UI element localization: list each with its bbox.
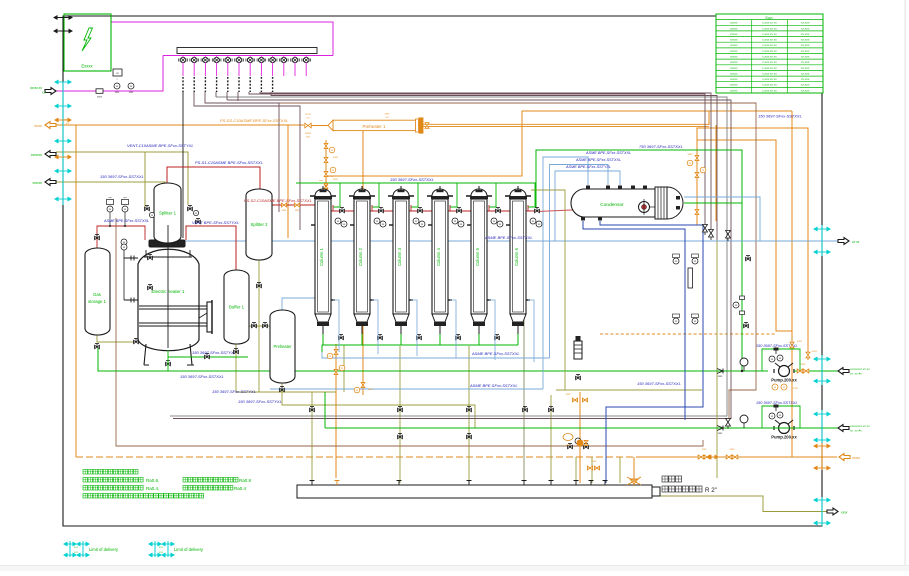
svg-text:150 3697-SFxx-SSTXXL: 150 3697-SFxx-SSTXXL [756,401,798,405]
svg-text:150 3697-SFxx-SSTXXL: 150 3697-SFxx-SSTXXL [637,381,681,386]
svg-text:xxxxx: xxxxx [730,21,738,25]
sample cooler [688,268,693,288]
orange vertical left + bottom return [75,125,77,457]
svg-text:xxxx: xxxx [811,350,818,353]
svg-text:VENT-C10ASME BPE-SFxx-SSTYXL: VENT-C10ASME BPE-SFxx-SSTYXL [127,143,194,148]
svg-text:xx,xxx: xx,xxx [801,88,810,92]
svg-text:xxxx: xxxx [332,178,339,181]
svg-text:xxxxx: xxxxx [730,55,738,59]
svg-text:150 3697-SFxx-SSTYXL: 150 3697-SFxx-SSTYXL [212,389,256,394]
valve orange 697a [695,155,699,160]
svg-text:xx xx: xx xx [851,240,860,244]
valves right-mid [746,257,751,260]
green condenser outlet tee [684,202,742,204]
red heater vent to buffer [186,226,236,270]
svg-text:x,x: x,x [74,550,78,554]
column Column 1 [333,183,340,207]
manifold valve 11 [292,57,297,62]
manifold valve 2 [192,57,197,62]
vessel Splitter 2 [246,189,272,260]
svg-text:xxxx: xxxx [688,153,694,156]
svg-text:x,x: x,x [159,545,163,549]
heater instruments [107,206,113,212]
olive drain line left [56,182,165,200]
svg-text:x,x: x,x [159,550,163,554]
manifold valve 3 [203,57,208,62]
orange branch down mid-left [325,140,327,190]
svg-text:xx. xx #x: xx. xx #x [849,429,862,433]
valve cluster left of splitter1 [145,207,150,210]
svg-text:ASME BPE-SFxx-SSTXXL: ASME BPE-SFxx-SSTXXL [484,235,533,240]
svg-text:xx,xxx: xx,xxx [801,77,810,81]
svg-text:xxxxx: xxxxx [730,32,738,36]
drain valve column header [339,336,344,339]
svg-text:xxxx: xxxx [792,387,799,390]
svg-text:xxxx: xxxx [367,388,374,391]
svg-text:xxxxx: xxxxx [730,83,738,87]
orange cluster mid bottom [572,398,577,402]
svg-text:xxxx: xxxx [332,156,339,159]
static mixer mid [574,341,582,359]
column Column 6 [528,183,535,207]
valve on splitter2 drop [257,284,262,287]
svg-text:xxxxx: xxxxx [34,124,42,128]
svg-text:xxxx: xxxx [730,448,736,451]
distribution manifold [177,48,317,54]
drain out arrow [827,508,838,515]
olive splitter2 bottom drop [258,260,260,392]
svg-text:x,xxx.xx xx: x,xxx.xx xx [762,49,777,53]
svg-text:Ra0.4: Ra0.4 [234,486,247,491]
svg-text:PS-S2-C10ASME BPE-SFxx-SSTXXL: PS-S2-C10ASME BPE-SFxx-SSTXXL [244,198,312,203]
svg-text:xx,xxx: xx,xxx [801,43,810,47]
preheater vert blue [282,241,330,310]
svg-text:storage 1: storage 1 [88,299,107,304]
electrical supply box [64,14,111,71]
svg-text:Ra0.4,: Ra0.4, [146,486,159,491]
red line gas-storage top [97,226,145,248]
cooling water inlet 1 [838,368,849,375]
relief valve product line [726,231,731,239]
valves rows lower [310,408,315,411]
svg-text:xxxx: xxxx [592,460,598,463]
svg-text:Column 3: Column 3 [397,247,402,266]
right edge limit marks [821,225,823,256]
light blue under columns [322,352,550,358]
svg-text:Preheater 1: Preheater 1 [363,124,387,129]
svg-text:xxxxx: xxxxx [730,77,738,81]
equipment table [716,14,823,93]
svg-text:ASME BPE-SFxx-SSTXXL: ASME BPE-SFxx-SSTXXL [585,151,631,155]
svg-text:xx,xxx: xx,xxx [801,66,810,70]
svg-text:ASME BPE-SFxx-SSTXXL: ASME BPE-SFxx-SSTXXL [469,383,518,388]
svg-text:xx,xxx: xx,xxx [801,83,810,87]
heating elements [139,305,207,307]
green long line pump1 [98,348,768,371]
manifold valve 7 [248,57,253,62]
drain valve column header [495,336,500,339]
svg-text:Column 6: Column 6 [514,247,519,266]
orange return terminus valve [324,185,327,189]
column Column 3 [411,183,418,207]
heater drain valve [166,362,171,365]
svg-text:xxxxx: xxxxx [730,43,738,47]
olive preheater bottom long [282,383,475,428]
svg-text:xxxxx: xxxxx [730,38,738,42]
svg-text:xx,xxx: xx,xxx [801,32,810,36]
red splitter2 to columns [272,196,330,205]
red column header [323,210,536,212]
drain label [662,476,668,482]
svg-text:xxxxxxxx xx xx: xxxxxxxx xx xx [849,424,870,428]
drain valve column header [417,336,422,339]
cooling water inlet 2 [838,425,849,432]
svg-text:xxxx: xxxx [796,340,803,343]
green feed header above columns [296,182,536,184]
olive vent line [56,152,188,205]
drain valve column header [378,336,383,339]
legend limit of delivery [69,541,71,557]
svg-text:xxxx: xxxx [566,444,572,447]
svg-text:xx,xxx: xx,xxx [801,26,810,30]
svg-text:xx,xxx: xx,xxx [801,71,810,75]
svg-text:R 2": R 2" [705,487,717,494]
notes line 4 [83,494,88,499]
svg-text:xxxxx: xxxxx [730,88,738,92]
svg-text:x,xxx.xx xx: x,xxx.xx xx [762,77,777,81]
window edge right [905,0,906,566]
column Column 2 [372,183,379,207]
drawing frame [63,16,822,526]
vessel Preheater vertical [270,310,295,383]
relief valve 2 [709,230,714,238]
svg-text:xxxx: xxxx [702,448,708,451]
svg-text:ASME BPE-SFxx-SSTXXL: ASME BPE-SFxx-SSTXXL [471,351,520,356]
svg-text:150 3697-SFxx-SSTXXL: 150 3697-SFxx-SSTXXL [100,174,144,179]
svg-text:Column 4: Column 4 [436,247,441,266]
heater bottom drain line [167,350,169,371]
notes line 3 [83,486,88,491]
brown long line [116,218,703,446]
orange cluster mid (x580) vertical [579,392,581,483]
orange return arrow [839,454,850,461]
pump Pump.200.xx [762,349,800,371]
svg-text:xxxx: xxxx [801,363,807,366]
svg-text:150 3697-SFxx-SSTXXL: 150 3697-SFxx-SSTXXL [390,177,434,182]
orange pair valves on y457 [698,455,704,459]
svg-text:ASME BPE-SFxx-SSTYXL: ASME BPE-SFxx-SSTYXL [565,165,611,169]
blue right loop from condenser [684,197,760,241]
svg-text:xx,xxx: xx,xxx [801,21,810,25]
inline pump/filter on condensate green [733,302,739,308]
svg-text:750 3697-SFxx-SSTXXL: 750 3697-SFxx-SSTXXL [639,144,683,149]
svg-text:Condensor: Condensor [600,202,624,208]
dark blue lines [583,221,685,420]
svg-text:x,x: x,x [74,545,78,549]
orange valves right column [790,342,794,348]
svg-text:xxxxx: xxxxx [730,66,738,70]
svg-text:PS-S1-C10ASME BPE-SFxx-SSTXXL: PS-S1-C10ASME BPE-SFxx-SSTXXL [195,160,263,165]
vessel Gas storage 1 [85,248,110,335]
instruments near magenta [113,69,122,76]
manifold valve 6 [236,57,241,62]
red transfer splitter1->splitter2 [167,167,260,189]
svg-text:150 3697-SFxx-SSTYXL: 150 3697-SFxx-SSTYXL [238,399,282,404]
small cluster above trough mid [575,438,581,444]
svg-text:150 3697-SFxx-SSTXXL: 150 3697-SFxx-SSTXXL [180,374,224,379]
FC box on magenta [96,89,103,94]
svg-text:xxxxx.xx: xxxxx.xx [30,86,42,90]
gray long line pair [170,97,727,416]
left edge cyan limit [62,82,64,205]
svg-text:Column 2: Column 2 [358,247,363,266]
left inlet/outlet arrows [45,122,56,129]
svg-text:x,x: x,x [65,122,70,125]
svg-text:x,x: x,x [42,91,46,95]
svg-text:x,xxx.xx xx: x,xxx.xx xx [762,21,777,25]
orange return loop [326,111,709,176]
bottom olive drain to arrow [660,496,838,512]
valve preheater inlet [305,123,311,128]
svg-text:Preheater: Preheater [274,344,293,349]
instrument ovals right-mid [673,258,679,264]
svg-text:xx,xxx: xx,xxx [801,60,810,64]
relief at pump1 suction [726,419,731,427]
svg-text:Ra0.6,: Ra0.6, [146,478,159,483]
orange right drop 2 [697,128,808,360]
svg-text:xxxxx: xxxxx [730,26,738,30]
svg-text:ASME BPE-SFxx-SSTXXL: ASME BPE-SFxx-SSTXXL [103,219,149,223]
green long line y428 [324,392,326,428]
svg-text:Splitter 1: Splitter 1 [159,211,177,216]
svg-text:Buffer 1: Buffer 1 [229,305,245,310]
manifold valve 9 [270,57,275,62]
svg-text:xxxxxx: xxxxxx [32,181,42,185]
svg-text:xxxxx: xxxxx [851,456,860,460]
light blue cooling bundle [543,157,588,389]
svg-text:xxxxxxxx xx xx: xxxxxxxx xx xx [849,367,870,371]
orange main supply [56,124,304,126]
floor drain trough [297,485,652,498]
svg-text:Gas: Gas [93,292,101,297]
magenta header under bar [163,55,333,57]
olive line gas-storage bottom [97,335,136,342]
vessel Preheater 1 [333,120,416,130]
orange cluster mid-left x326 [324,143,328,148]
svg-text:xx,xxx: xx,xxx [801,38,810,42]
manifold valve 10 [281,57,286,62]
feeder arrow 1 [54,16,72,19]
orange right drop [791,115,793,457]
svg-text:xx,xxx: xx,xxx [801,49,810,53]
orange drop x716 [715,125,717,221]
manifold valve 12 [304,57,309,62]
olive riser to trough left [311,392,313,483]
manifold fanout remaining [249,92,705,228]
svg-text:x,xxx.xx xx: x,xxx.xx xx [762,26,777,30]
valve orange 697c [695,209,699,214]
svg-text:PS-SS-C10ASME BPE-SFxx-SSTXXL: PS-SS-C10ASME BPE-SFxx-SSTXXL [220,118,288,123]
distillate out arrow [838,238,849,245]
drain valve column header [456,336,461,339]
blue drops from columns [333,300,339,352]
svg-text:xxxxxxx: xxxxxxx [31,153,43,157]
vessel Condenser [571,189,655,217]
valve preheater outlet [425,123,429,129]
svg-text:Column 5: Column 5 [475,247,480,266]
svg-text:x,xxx.xx xx: x,xxx.xx xx [762,55,777,59]
svg-text:Pump.200.xx: Pump.200.xx [771,378,797,383]
olive buffer bottom [236,344,336,392]
heater level gauge left [123,247,125,300]
orange cluster x363 bottom [361,382,365,387]
svg-text:xxxx: xxxx [840,511,848,515]
orange bottom-left risers [335,344,337,478]
inter-column valves on red header [340,209,345,212]
svg-text:150 3697-SFxx-SSTXXL: 150 3697-SFxx-SSTXXL [758,114,802,119]
junction dots [741,370,743,372]
svg-text:xxxx: xxxx [566,393,572,396]
svg-text:xxxxx: xxxxx [730,49,738,53]
svg-text:Ra0.8: Ra0.8 [239,478,252,483]
svg-text:Column 1: Column 1 [319,247,324,266]
buffer-preheater tie [249,325,272,327]
svg-text:xxxxx: xxxxx [730,71,738,75]
green to right edge pump2 [766,427,838,429]
green collection from column bottoms [322,334,324,345]
orange sample pair under pump1 [772,384,778,390]
svg-text:x,xxx.xx xx: x,xxx.xx xx [762,43,777,47]
vessel Buffer 1 [224,270,249,344]
svg-text:x,xxx.xx xx: x,xxx.xx xx [762,32,777,36]
manifold valve 8 [259,57,264,62]
orange supply pair a [423,123,709,125]
column Column 4 [450,183,457,207]
orange drain funnel [627,477,641,486]
gas storage top valve [95,236,100,239]
valve orange 697b [695,172,699,177]
svg-text:xx,xxx: xx,xxx [801,55,810,59]
svg-text:xxxxx: xxxxx [730,60,738,64]
olive drop col6 to drain header [531,190,565,390]
brown line upper to pump relief [238,103,756,421]
svg-text:x,xxx.xx xx: x,xxx.xx xx [762,60,777,64]
svg-text:150 3697-SFxx-SSTYXL: 150 3697-SFxx-SSTYXL [192,350,236,355]
svg-text:xx. xx #x: xx. xx #x [849,372,862,376]
svg-text:xxxx: xxxx [97,96,103,99]
olive drop right [716,240,718,478]
svg-text:Exxxx: Exxxx [81,64,93,69]
svg-text:ASME BPE-SFxx-SSTXXL: ASME BPE-SFxx-SSTXXL [575,158,621,162]
svg-text:Splitter 2: Splitter 2 [251,222,269,227]
notes line 2 [83,478,88,483]
manifold valve 4 [214,57,219,62]
svg-text:x,xxx.xx xx: x,xxx.xx xx [762,71,777,75]
svg-text:VENT BPE-SFxx-SSTYXL: VENT BPE-SFxx-SSTYXL [192,220,239,225]
svg-text:Eqxx: Eqxx [765,16,772,20]
green to right edge pump1 [794,370,838,372]
green big rectangle [528,150,742,371]
feeder arrow 2 [54,29,72,32]
magenta power line top [111,22,333,56]
relief valve 1 [703,225,708,233]
manifold valve 1 [180,57,185,62]
notes line 1 [83,470,88,475]
heater legs [144,344,194,365]
vessel Electric heater 1 [149,240,185,247]
svg-text:Pump.200.xx: Pump.200.xx [771,435,797,440]
vessel Splitter 1 [154,183,181,243]
pump Pump.200.xx [762,406,800,428]
svg-text:x,xxx.xx xx: x,xxx.xx xx [762,88,777,92]
column Column 5 [489,183,496,207]
heater internals stem [167,225,169,348]
svg-text:x,xxx.xx xx: x,xxx.xx xx [762,83,777,87]
manifold valve 5 [225,57,230,62]
light blue product line [152,240,838,242]
svg-text:x,xxx.xx xx: x,xxx.xx xx [762,66,777,70]
svg-text:x,xxx.xx xx: x,xxx.xx xx [762,38,777,42]
svg-text:Limit of delivery: Limit of delivery [174,547,204,552]
orange supply pair b [423,126,709,128]
orange heat trace dashed [600,333,776,335]
svg-text:Limit of delivery: Limit of delivery [89,547,119,552]
black drop from first manifold valve [182,92,184,238]
power inlet arrow [45,88,56,95]
